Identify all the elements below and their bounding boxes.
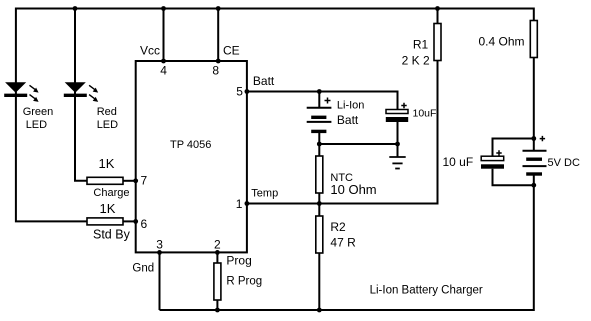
svg-text:7: 7: [141, 173, 148, 187]
svg-text:47 R: 47 R: [330, 236, 356, 250]
svg-text:2: 2: [214, 238, 221, 252]
svg-text:CE: CE: [223, 44, 240, 58]
svg-text:Batt: Batt: [337, 113, 359, 127]
svg-text:Temp: Temp: [251, 188, 278, 200]
svg-text:Green: Green: [23, 106, 54, 118]
svg-text:R2: R2: [330, 220, 346, 234]
svg-text:1K: 1K: [100, 201, 116, 216]
svg-text:R1: R1: [413, 37, 429, 51]
svg-text:1: 1: [236, 197, 243, 211]
svg-text:2 K 2: 2 K 2: [402, 53, 430, 67]
svg-text:TP 4056: TP 4056: [170, 139, 211, 151]
svg-text:6: 6: [141, 217, 148, 231]
svg-text:Red: Red: [97, 106, 117, 118]
svg-text:10uF: 10uF: [413, 108, 437, 120]
svg-text:Batt: Batt: [253, 74, 275, 88]
svg-text:5: 5: [236, 85, 243, 99]
svg-text:1K: 1K: [99, 156, 115, 171]
svg-text:3: 3: [156, 238, 163, 252]
svg-text:5V DC: 5V DC: [548, 157, 580, 169]
svg-text:NTC: NTC: [330, 172, 353, 184]
svg-text:Vcc: Vcc: [140, 44, 160, 58]
svg-text:0.4 Ohm: 0.4 Ohm: [479, 35, 525, 49]
svg-text:4: 4: [160, 63, 167, 77]
svg-text:Std By: Std By: [93, 227, 131, 241]
svg-text:8: 8: [212, 63, 219, 77]
svg-text:LED: LED: [26, 119, 47, 131]
svg-text:R Prog: R Prog: [226, 276, 262, 288]
svg-text:Gnd: Gnd: [132, 263, 154, 275]
svg-text:10 Ohm: 10 Ohm: [330, 182, 376, 197]
svg-text:Prog: Prog: [226, 254, 251, 268]
svg-text:Li-Ion: Li-Ion: [337, 99, 365, 111]
svg-text:Li-Ion Battery Charger: Li-Ion Battery Charger: [370, 285, 483, 297]
svg-text:LED: LED: [97, 119, 118, 131]
svg-text:Charge: Charge: [93, 187, 129, 199]
svg-text:10 uF: 10 uF: [443, 155, 474, 169]
